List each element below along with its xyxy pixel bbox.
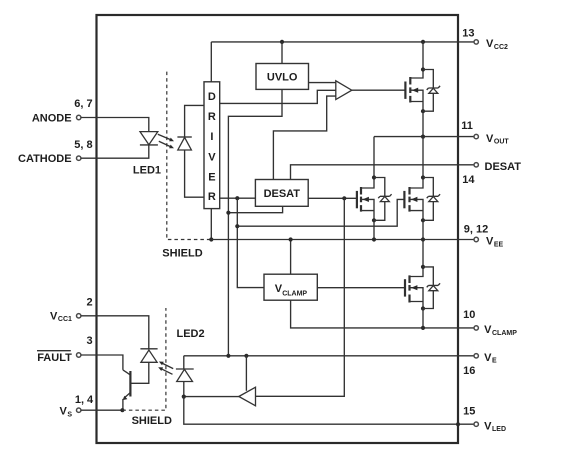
diode D3 body diode of Q3 bbox=[423, 178, 440, 221]
junction DESAT output to feedback buffer bbox=[342, 196, 346, 200]
light arrow from LED1 bbox=[159, 141, 174, 148]
terminal VCC1 bbox=[77, 314, 81, 318]
UVLO block bbox=[256, 64, 309, 90]
terminal VLED bbox=[474, 422, 478, 426]
junction Q2 source bbox=[372, 218, 376, 222]
junction DRIVER bottom on VEE rail bbox=[209, 237, 213, 241]
svg-text:V: V bbox=[486, 133, 494, 145]
svg-text:DESAT: DESAT bbox=[485, 161, 522, 173]
LED2 bbox=[176, 356, 194, 397]
svg-text:E: E bbox=[208, 171, 215, 183]
node VE label bbox=[484, 352, 497, 365]
junction Q2 source on VEE bbox=[372, 237, 376, 241]
svg-text:CC2: CC2 bbox=[494, 44, 508, 51]
terminal VOUT bbox=[474, 134, 478, 138]
wire Q4 drain to VEE rail bbox=[422, 240, 424, 267]
node VCC2 label bbox=[486, 38, 508, 51]
terminal VEE bbox=[474, 237, 478, 241]
svg-text:16: 16 bbox=[463, 365, 475, 377]
junction Q1 source bbox=[421, 109, 425, 113]
wire Q4 source to VCLAMP pin line bbox=[422, 309, 424, 328]
svg-text:FAULT: FAULT bbox=[37, 352, 72, 364]
transistor Q4 clamp MOSFET bbox=[405, 267, 423, 309]
wire VCLAMP right to Q4 gate bbox=[318, 287, 405, 289]
wire DRIVER top to VCC2 rail bbox=[210, 42, 212, 82]
svg-text:14: 14 bbox=[462, 174, 475, 186]
svg-text:V: V bbox=[486, 38, 494, 50]
svg-text:CLAMP: CLAMP bbox=[282, 291, 307, 298]
light arrow from LED1 bbox=[158, 134, 174, 141]
junction LED2 anode bbox=[182, 395, 186, 399]
junction DESAT left branch bbox=[235, 196, 239, 200]
wire VCLAMP bottom pin to VCLAMP pin line bbox=[291, 300, 474, 328]
svg-text:CLAMP: CLAMP bbox=[492, 330, 517, 337]
svg-text:V: V bbox=[50, 310, 58, 322]
transistor Q2 DESAT sense MOSFET bbox=[357, 178, 374, 221]
node VEE label bbox=[486, 236, 504, 249]
svg-text:1, 4: 1, 4 bbox=[75, 394, 94, 406]
wire PD1 cathode to DRIVER top-left bbox=[185, 105, 204, 137]
wire VS to Q5 emitter bbox=[81, 409, 122, 411]
wire to Q3 gate bbox=[237, 199, 404, 226]
junction Q4 source bbox=[421, 306, 425, 310]
wire DESAT pin line bbox=[291, 165, 474, 180]
wire Q1 source to VOUT node bbox=[422, 111, 424, 136]
svg-text:OUT: OUT bbox=[494, 139, 510, 146]
junction VOUT node bbox=[421, 135, 425, 139]
svg-text:9, 12: 9, 12 bbox=[464, 223, 488, 235]
svg-text:V: V bbox=[484, 420, 492, 432]
photodiode PD1 bbox=[177, 137, 191, 150]
photodiode PD2 bbox=[140, 349, 157, 363]
wire VE branch to buffer U2 bbox=[245, 356, 247, 391]
wire buffer U2 output to LED2 anode bbox=[184, 396, 239, 398]
svg-text:LED2: LED2 bbox=[177, 328, 205, 340]
svg-text:13: 13 bbox=[462, 28, 474, 40]
svg-text:DESAT: DESAT bbox=[264, 188, 301, 200]
wire ANODE to LED1 anode bbox=[81, 118, 149, 132]
svg-text:V: V bbox=[484, 324, 492, 336]
wire UVLO bottom pin to LED2 column bbox=[228, 89, 282, 355]
wire PD2 anode to Q5 base bbox=[130, 362, 148, 383]
wire Q1 drain to VCC2 rail bbox=[422, 42, 424, 70]
wire VOUT left leg down to Q2 drain bbox=[373, 137, 375, 178]
wire CATHODE to LED1 cathode bbox=[81, 145, 149, 158]
diode D2 body diode of Q2 bbox=[374, 178, 392, 221]
wire DESAT top pin to buffer input bbox=[273, 96, 335, 179]
terminal VE bbox=[474, 354, 478, 358]
terminal CATHODE bbox=[77, 156, 81, 160]
svg-text:ANODE: ANODE bbox=[32, 112, 72, 124]
junction Q3 gate line bbox=[235, 224, 239, 228]
node VCC1 label bbox=[50, 310, 72, 323]
shield dashed line top optocoupler bbox=[167, 72, 210, 240]
svg-text:S: S bbox=[67, 411, 72, 418]
wire UVLO top pin bbox=[281, 42, 283, 64]
svg-text:EE: EE bbox=[494, 241, 504, 248]
terminal VCC2 bbox=[474, 40, 478, 44]
svg-text:10: 10 bbox=[463, 309, 475, 321]
wire PD1 anode to DRIVER bottom-left bbox=[185, 150, 204, 197]
junction VLED at boundary bbox=[456, 422, 460, 426]
node VLED label bbox=[484, 420, 506, 433]
LED1 bbox=[140, 132, 158, 145]
wire VEE rail bbox=[211, 239, 474, 241]
diode D4 body diode of Q4 bbox=[423, 267, 440, 309]
diode D1 body diode of Q1 bbox=[423, 70, 440, 112]
DRIVER block bbox=[204, 82, 220, 209]
wire VE pin line bbox=[184, 355, 474, 357]
transistor Q3 pull-down MOSFET bbox=[404, 178, 423, 221]
svg-text:V: V bbox=[60, 406, 68, 418]
IC outer boundary box bbox=[97, 15, 459, 443]
node VCLAMP label bbox=[484, 324, 517, 337]
junction VE to buffer top bbox=[244, 354, 248, 358]
svg-text:SHIELD: SHIELD bbox=[132, 415, 172, 427]
terminal VS bbox=[77, 408, 81, 412]
svg-text:5, 8: 5, 8 bbox=[74, 139, 92, 151]
wire VLED pin line bbox=[184, 397, 474, 425]
svg-text:15: 15 bbox=[463, 405, 475, 417]
svg-text:D: D bbox=[208, 91, 216, 103]
svg-text:LED1: LED1 bbox=[133, 164, 161, 176]
op-amp buffer U1 (gate drive) bbox=[336, 81, 352, 100]
wire DRIVER right to buffer input bbox=[220, 90, 336, 103]
junction Q4 drain bbox=[421, 265, 425, 269]
junction on VCC2 rail at output FET bbox=[421, 40, 425, 44]
svg-text:CATHODE: CATHODE bbox=[18, 153, 72, 165]
node FAULT label with overline bbox=[37, 351, 72, 365]
junction Q4 source on VCLAMP line bbox=[421, 326, 425, 330]
wire DESAT right to Q2 gate bbox=[308, 197, 357, 199]
svg-text:11: 11 bbox=[461, 120, 473, 132]
transistor Q1 pull-up MOSFET bbox=[405, 70, 423, 112]
terminal ANODE bbox=[77, 115, 81, 119]
wire UVLO right to buffer input bbox=[309, 82, 336, 84]
node VS label bbox=[60, 406, 73, 419]
svg-text:V: V bbox=[484, 352, 492, 364]
transistor Q5 phototransistor bbox=[123, 370, 131, 410]
wire Q3 drain to VOUT node bbox=[422, 137, 424, 178]
wire VCLAMP top pin to VEE rail bbox=[290, 240, 292, 275]
wire DESAT bottom pin to LED2 column bbox=[228, 206, 282, 212]
junction VE to UVLO/DESAT column bbox=[226, 354, 230, 358]
wire branch down to VCLAMP left pin bbox=[237, 198, 264, 287]
svg-text:R: R bbox=[208, 111, 216, 123]
junction on VCC2 rail at UVLO bbox=[280, 40, 284, 44]
DESAT block bbox=[255, 180, 308, 207]
junction Q5 emitter on VS wire bbox=[120, 408, 124, 412]
svg-text:3: 3 bbox=[86, 335, 92, 347]
wire FAULT to Q5 collector bbox=[81, 355, 123, 370]
op-amp buffer U2 (fault feedback) bbox=[239, 387, 256, 406]
shield dashed line bottom optocoupler bbox=[122, 308, 165, 410]
wire VCC2 rail bbox=[211, 41, 474, 43]
svg-text:UVLO: UVLO bbox=[267, 72, 298, 84]
svg-text:I: I bbox=[210, 131, 213, 143]
svg-text:R: R bbox=[208, 191, 216, 203]
svg-text:SHIELD: SHIELD bbox=[162, 247, 202, 259]
junction Q1 drain bbox=[421, 67, 425, 71]
wire VOUT bbox=[374, 136, 474, 138]
svg-text:E: E bbox=[492, 358, 497, 365]
svg-text:LED: LED bbox=[492, 426, 506, 433]
svg-text:V: V bbox=[486, 236, 494, 248]
svg-text:6, 7: 6, 7 bbox=[74, 98, 92, 110]
terminal DESAT bbox=[474, 163, 478, 167]
junction Q2 drain bbox=[372, 175, 376, 179]
wire DRIVER bottom to VEE rail bbox=[210, 209, 212, 240]
wire buffer U2 input from DESAT node bbox=[256, 198, 345, 396]
terminal FAULT bbox=[77, 353, 81, 357]
wire buffer output to Q1 gate bbox=[352, 89, 406, 91]
svg-text:CC1: CC1 bbox=[58, 316, 72, 323]
light arrow from LED2 bbox=[158, 367, 172, 374]
junction Q3 source on VEE bbox=[421, 237, 425, 241]
wire Q3 source to VEE rail bbox=[422, 220, 424, 239]
wire DRIVER right to DESAT left bbox=[220, 197, 256, 199]
light arrow from LED2 bbox=[159, 362, 173, 369]
junction VCLAMP top on VEE bbox=[289, 237, 293, 241]
svg-text:2: 2 bbox=[86, 297, 92, 309]
junction Q3 source bbox=[421, 218, 425, 222]
junction on LED2 column bbox=[226, 211, 230, 215]
junction Q3 drain bbox=[421, 175, 425, 179]
node VOUT label bbox=[486, 133, 509, 146]
terminal VCLAMP bbox=[474, 326, 478, 330]
VCLAMP block bbox=[264, 274, 317, 300]
wire Q2 source to VEE rail bbox=[373, 220, 375, 239]
wire VCC1 to PD2 cathode bbox=[81, 316, 149, 349]
svg-text:V: V bbox=[208, 151, 216, 163]
